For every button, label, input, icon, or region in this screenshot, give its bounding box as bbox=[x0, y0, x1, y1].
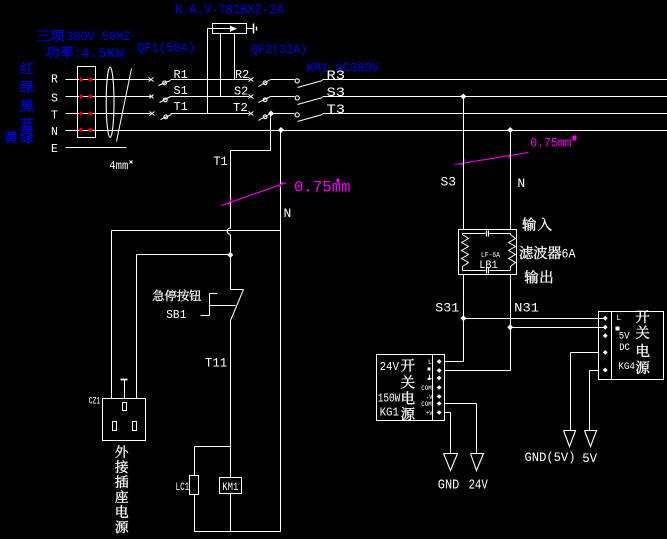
label SB1 bbox=[166, 308, 186, 322]
power supply KG1 terminals bbox=[437, 359, 442, 415]
label R.A.V-781BXZ-2A bbox=[175, 2, 285, 18]
svg-text:T: T bbox=[51, 110, 58, 123]
label CZ1 bbox=[89, 395, 101, 407]
label R3 bbox=[327, 68, 346, 83]
pushbutton SB1 contact bbox=[201, 290, 244, 321]
svg-text:N: N bbox=[51, 126, 58, 139]
wire T11 to coils bbox=[230, 321, 232, 478]
breaker QF1 pole S bbox=[150, 95, 171, 103]
coil LC1 bbox=[190, 476, 199, 495]
svg-text:S: S bbox=[51, 93, 58, 106]
svg-text:GND(5V): GND(5V) bbox=[525, 450, 576, 465]
svg-text:R.A.V-781BXZ-2A: R.A.V-781BXZ-2A bbox=[175, 2, 285, 18]
svg-text:QF2(32A): QF2(32A) bbox=[251, 42, 307, 57]
label KG4 bbox=[618, 361, 635, 373]
svg-text:T1: T1 bbox=[213, 154, 227, 169]
svg-text:5V: 5V bbox=[619, 330, 630, 342]
svg-text:DC: DC bbox=[619, 343, 630, 354]
svg-text:24V: 24V bbox=[380, 360, 400, 374]
label 0.75mm right bbox=[530, 136, 576, 151]
label KG1 bbox=[380, 406, 399, 420]
svg-text:T2: T2 bbox=[233, 101, 248, 115]
svg-text:6A: 6A bbox=[562, 247, 576, 262]
wire T1 from T bus bbox=[231, 114, 271, 229]
svg-text:SB1: SB1 bbox=[166, 308, 186, 322]
wire KG1 COM to GND arrow bbox=[445, 413, 451, 454]
label R1 bbox=[174, 68, 188, 82]
svg-text:380V 50HZ: 380V 50HZ bbox=[66, 29, 130, 44]
label three-phase 380V 50HZ bbox=[37, 29, 131, 44]
label DC bbox=[619, 343, 630, 354]
wire KG1 V+ to 24V arrow bbox=[445, 404, 477, 454]
power supply KG1 terminal labels bbox=[421, 359, 432, 417]
wire T bus bbox=[66, 113, 667, 115]
svg-text:L: L bbox=[616, 314, 621, 323]
svg-text:N: N bbox=[517, 176, 525, 191]
label T11 bbox=[205, 356, 227, 371]
breaker QF1 pole R bbox=[149, 78, 171, 86]
arrow 5V bbox=[585, 431, 597, 447]
svg-text:LF-6A: LF-6A bbox=[481, 252, 501, 260]
wire branch to LC1 bbox=[195, 447, 231, 476]
svg-text:T1: T1 bbox=[174, 100, 188, 114]
svg-text:GND: GND bbox=[438, 479, 460, 494]
power supply KG4 terminals bbox=[603, 316, 608, 373]
label 24V arrow bbox=[469, 479, 489, 494]
bus terminal label S bbox=[51, 93, 58, 106]
svg-text:E: E bbox=[51, 143, 58, 156]
svg-text:S1: S1 bbox=[174, 84, 188, 98]
wire N bus bbox=[66, 130, 667, 132]
wire E bus bbox=[66, 147, 127, 149]
svg-text:0.75mm: 0.75mm bbox=[530, 136, 571, 150]
bus terminal label T bbox=[51, 110, 58, 123]
breaker QF2 pole S bbox=[249, 95, 271, 103]
label T1 bbox=[174, 100, 188, 114]
label S1 bbox=[174, 84, 188, 98]
socket CZ1 ground pin bbox=[121, 380, 128, 399]
svg-text:N: N bbox=[284, 206, 292, 221]
svg-text:COM: COM bbox=[421, 385, 432, 392]
node T11 tap bbox=[227, 252, 233, 258]
node S bus tap S3 bbox=[460, 94, 466, 100]
wire socket live to N bus bbox=[112, 231, 281, 399]
svg-text:S31: S31 bbox=[435, 301, 459, 316]
wire U1 to S bus bbox=[220, 34, 222, 97]
svg-text:LC1: LC1 bbox=[176, 482, 190, 494]
wire N31 bbox=[445, 275, 604, 371]
filter bottom rail with capacitor bbox=[463, 268, 511, 274]
svg-text:0.75mm: 0.75mm bbox=[294, 178, 351, 196]
svg-text:LB1: LB1 bbox=[479, 260, 498, 272]
phase color label green bbox=[20, 80, 33, 93]
label 24V bbox=[380, 360, 400, 374]
label KG4 switching power supply bbox=[636, 310, 650, 374]
svg-text:150W: 150W bbox=[378, 391, 401, 405]
wire S bus bbox=[66, 96, 667, 98]
wire N return bottom bbox=[195, 531, 281, 533]
svg-text:5V: 5V bbox=[582, 451, 597, 466]
svg-text:N31: N31 bbox=[514, 301, 539, 316]
wire R bus bbox=[66, 79, 667, 81]
wire T1 lower bbox=[230, 235, 232, 290]
wire N drop bbox=[280, 131, 282, 532]
phase color label yellow-green bbox=[5, 131, 34, 144]
svg-text:QF1(50A): QF1(50A) bbox=[137, 40, 195, 55]
wire U1 to T bus bbox=[208, 29, 213, 114]
label QF1(50A) bbox=[137, 40, 195, 55]
contactor KM1 pole R bbox=[295, 79, 322, 88]
label 5V bbox=[619, 330, 630, 342]
bus terminal label E bbox=[51, 143, 58, 156]
power supply KG4 terminal labels bbox=[616, 314, 622, 331]
contactor KM1 pole S bbox=[295, 96, 322, 105]
wire LC1 to N return bbox=[194, 495, 196, 532]
label filter output bbox=[524, 270, 552, 284]
svg-text:KG4: KG4 bbox=[618, 361, 635, 373]
label 5V arrow bbox=[582, 451, 597, 466]
wire KG4 GND to arrow bbox=[571, 353, 599, 431]
label emergency stop button bbox=[153, 290, 201, 302]
svg-text:KG1: KG1 bbox=[380, 406, 399, 420]
socket CZ1 body bbox=[103, 399, 146, 441]
node T bus tap bbox=[268, 111, 274, 117]
label LC1 bbox=[176, 482, 190, 494]
label external socket power bbox=[115, 445, 128, 533]
label N wire right bbox=[517, 176, 525, 191]
label filter input bbox=[522, 217, 551, 231]
filter LB1 body bbox=[459, 230, 517, 275]
label 4mm2 bbox=[109, 159, 132, 173]
filter top rail with capacitor bbox=[463, 231, 511, 237]
phase color label black bbox=[20, 99, 33, 112]
wire gauge leader 0.75mm left bbox=[222, 182, 287, 206]
arrow GND 5V bbox=[564, 431, 576, 447]
label T2 bbox=[233, 101, 248, 115]
cable slash bbox=[117, 69, 132, 142]
svg-text:R3: R3 bbox=[327, 68, 346, 83]
svg-text:R: R bbox=[51, 74, 58, 87]
breaker QF2 pole T bbox=[249, 112, 271, 121]
wire U1 to R bus bbox=[234, 34, 236, 80]
label 0.75mm left bbox=[294, 178, 351, 196]
socket CZ1 slots bbox=[113, 403, 137, 431]
arrow 24V bbox=[471, 454, 484, 471]
label power 4.5KW bbox=[46, 45, 124, 60]
wire gauge leader 0.75mm right bbox=[455, 153, 529, 166]
bus terminal label N bbox=[51, 126, 58, 139]
svg-text:T3: T3 bbox=[327, 102, 346, 117]
filter right inductor bbox=[509, 234, 516, 271]
label N wire bbox=[284, 206, 292, 221]
surge meter ground electrode bbox=[247, 24, 257, 34]
svg-text:4mm: 4mm bbox=[109, 159, 128, 173]
phase color label red bbox=[21, 62, 34, 74]
svg-text:L: L bbox=[428, 359, 432, 366]
arrow GND bbox=[444, 454, 458, 471]
label QF2(32A) bbox=[251, 42, 307, 57]
label S31 bbox=[435, 301, 459, 316]
node N bus tap bbox=[278, 127, 284, 133]
svg-text:S2: S2 bbox=[234, 85, 248, 99]
svg-text:+V: +V bbox=[426, 410, 433, 417]
bus terminal label R bbox=[51, 74, 58, 87]
svg-text:T11: T11 bbox=[205, 356, 227, 371]
label GND(5V) bbox=[525, 450, 576, 465]
power supply KG4 body bbox=[599, 312, 664, 380]
terminal block contacts bbox=[79, 77, 93, 133]
svg-text:COM: COM bbox=[421, 401, 432, 408]
power supply KG1 body bbox=[377, 355, 445, 421]
node S31 bbox=[460, 315, 466, 321]
wire N drop to filter bbox=[510, 131, 512, 230]
filter left inductor bbox=[462, 234, 469, 271]
label R2 bbox=[235, 68, 249, 82]
label T1 wire bbox=[213, 154, 227, 169]
cable loop bbox=[106, 67, 114, 137]
coil KM1 bbox=[220, 478, 242, 495]
wire socket to T11 node bbox=[137, 255, 231, 399]
breaker QF2 pole R bbox=[249, 78, 271, 87]
phase color label blue bbox=[20, 118, 33, 130]
label LB1 bbox=[479, 260, 498, 272]
label GND bbox=[438, 479, 460, 494]
svg-text:CZ1: CZ1 bbox=[89, 395, 101, 407]
label S3 bbox=[327, 85, 346, 100]
label LF-6A bbox=[481, 252, 501, 260]
label KM1 AC380V bbox=[307, 60, 380, 75]
node N bus tap N31 bbox=[507, 127, 513, 133]
label KG1 switching power supply bbox=[401, 359, 415, 421]
svg-text:S3: S3 bbox=[441, 175, 457, 190]
contactor KM1 pole T bbox=[295, 113, 322, 122]
svg-text:KM1: KM1 bbox=[222, 482, 238, 494]
svg-text:24V: 24V bbox=[469, 479, 489, 494]
svg-text:-V: -V bbox=[426, 394, 433, 401]
svg-text:R1: R1 bbox=[174, 68, 188, 82]
label S2 bbox=[234, 85, 248, 99]
breaker QF1 pole T bbox=[150, 112, 172, 120]
wire KM1 coil to N return bbox=[230, 494, 232, 532]
label S3 wire bbox=[441, 175, 457, 190]
surge meter U1 body bbox=[213, 24, 247, 34]
svg-text:S3: S3 bbox=[327, 85, 346, 100]
wire KG4 5V to arrow bbox=[590, 371, 599, 431]
label N31 bbox=[514, 301, 539, 316]
label 150W bbox=[378, 391, 401, 405]
label T3 bbox=[327, 102, 346, 117]
terminal block XT1 bbox=[78, 67, 96, 138]
crossing hop bbox=[227, 228, 230, 234]
label filter 6A bbox=[519, 246, 575, 262]
node N31 bbox=[507, 324, 513, 330]
wire S3 drop bbox=[463, 97, 465, 230]
svg-text:4.5KW: 4.5KW bbox=[81, 46, 124, 61]
svg-text:R2: R2 bbox=[235, 68, 249, 82]
wire S31 bbox=[445, 275, 604, 362]
